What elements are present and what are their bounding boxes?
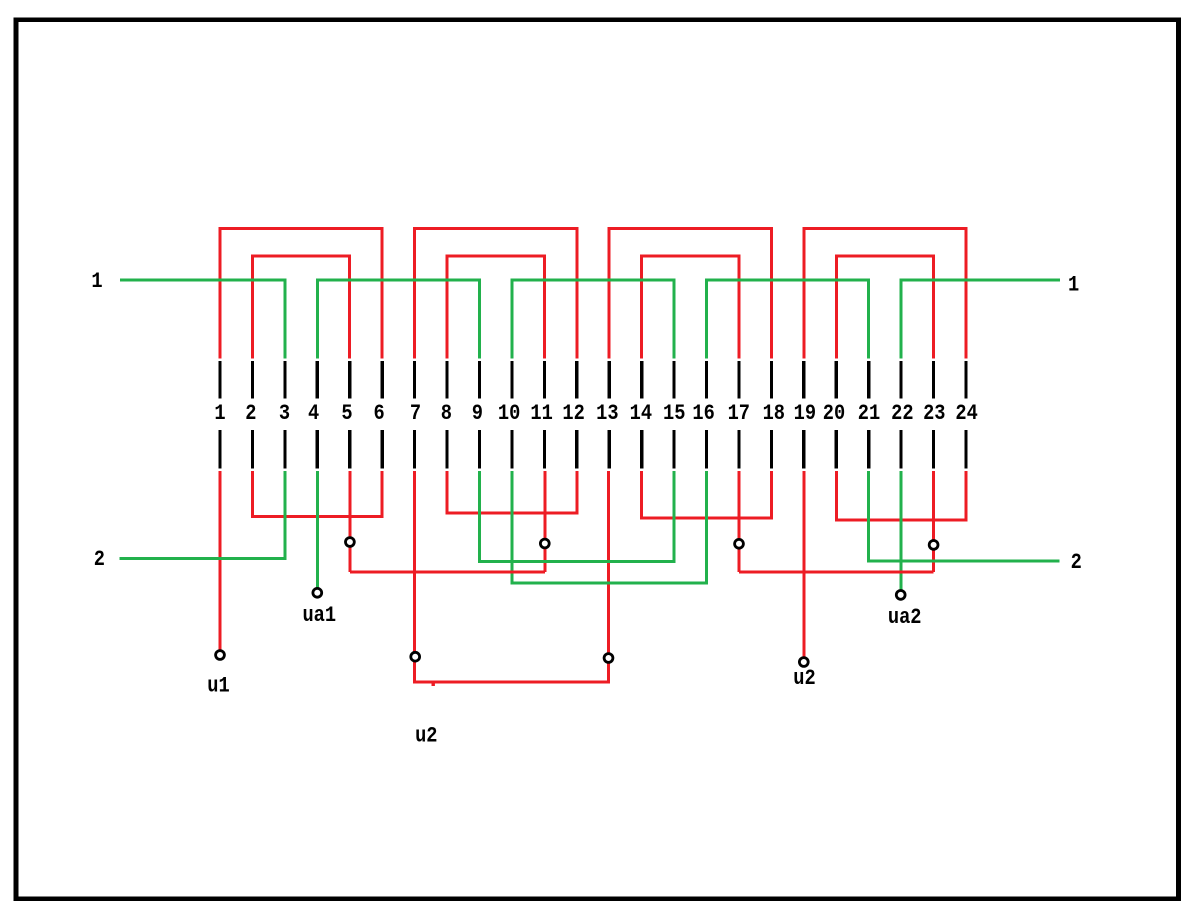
wire: red bottom end-turn slot 20 to slot 24	[836, 471, 966, 520]
wire: green phase line 1 slot 10 to slot 15	[512, 280, 674, 359]
svg-text:21: 21	[858, 402, 880, 427]
wire: red lead slot 17 down through node to jumper level	[738, 471, 741, 572]
slot 10 upper bar	[510, 361, 513, 398]
svg-text:ua1: ua1	[302, 604, 336, 629]
slot 19 lower bar	[802, 430, 805, 469]
svg-text:5: 5	[341, 402, 352, 427]
node: tap circle on slot 11 lead	[540, 539, 549, 548]
slot 19 upper bar	[802, 361, 805, 398]
svg-text:2: 2	[245, 402, 256, 427]
slot 21 upper bar	[867, 361, 870, 398]
slot 5 lower bar	[348, 430, 351, 469]
wire: green from slot 21 to right terminal 2	[869, 471, 1060, 561]
slot 23 lower bar	[932, 430, 935, 469]
wire: red lead slot 5 down through node to jumper level	[348, 471, 351, 572]
svg-text:17: 17	[728, 402, 750, 427]
slot 13 upper bar	[608, 361, 611, 398]
svg-text:1: 1	[91, 270, 102, 295]
slot 11 upper bar	[543, 361, 546, 398]
slot 17 upper bar	[737, 361, 740, 398]
slot 2 lower bar	[251, 430, 254, 469]
wire: red lead slot 1 down to terminal u1	[219, 471, 222, 655]
node: tap circle on slot 5 lead	[346, 538, 355, 547]
wire: red jumper node slot 17 to node slot 23	[739, 571, 934, 574]
wire: red jumper node slot 5 to node slot 11	[350, 571, 545, 574]
svg-text:u2: u2	[415, 724, 437, 749]
svg-text:10: 10	[498, 402, 520, 427]
slot 6 upper bar	[381, 361, 384, 398]
svg-text:u2: u2	[793, 667, 815, 692]
slot 2 upper bar	[251, 361, 254, 398]
wire: green bottom jumper slot 10 to slot 16	[512, 471, 707, 583]
wire: green phase line 1 from left terminal 1 into slot 3	[120, 280, 285, 359]
svg-text:ua2: ua2	[888, 606, 922, 631]
wire: red lead slot 19 down to terminal u2	[802, 471, 805, 662]
slot 4 lower bar	[316, 430, 319, 469]
svg-text:4: 4	[308, 402, 319, 427]
wire: green lead slot 22 down to terminal ua2	[900, 471, 903, 595]
wire: red outer top end-turn slot 1 to slot 6	[220, 229, 382, 359]
wire: green phase line 1 slot 22 to right terminal 1	[901, 280, 1060, 359]
terminal u1 circle	[216, 651, 225, 660]
wire: red lead slot 11 down through node to jumper level	[543, 471, 546, 572]
wire: green bottom jumper slot 9 to slot 15	[480, 471, 675, 561]
slot 3 upper bar	[283, 361, 286, 398]
svg-text:8: 8	[441, 402, 452, 427]
wire: red inner top end-turn slot 2 to slot 5	[252, 256, 349, 359]
slot 7 upper bar	[413, 361, 416, 398]
slot 17 lower bar	[737, 430, 740, 469]
svg-text:7: 7	[410, 402, 421, 427]
wire: green phase line 1 slot 4 to slot 9	[317, 280, 479, 359]
wire: red bottom end-turn slot 2 to slot 6	[252, 471, 382, 516]
svg-text:18: 18	[763, 402, 785, 427]
slot 3 lower bar	[283, 430, 286, 469]
wire: red bottom end-turn slot 14 to slot 18	[642, 471, 772, 518]
slot 11 lower bar	[543, 430, 546, 469]
slot 8 upper bar	[445, 361, 448, 398]
svg-text:24: 24	[955, 402, 977, 427]
svg-text:20: 20	[823, 402, 845, 427]
slot 18 lower bar	[770, 430, 773, 469]
slot 5 upper bar	[348, 361, 351, 398]
slot 12 upper bar	[575, 361, 578, 398]
svg-text:2: 2	[1071, 551, 1082, 576]
svg-text:11: 11	[530, 402, 552, 427]
node: tap circle on slot 23 lead	[929, 541, 938, 550]
wire: red lead slot 23 down through node to jumper level	[932, 471, 935, 572]
slot 15 upper bar	[672, 361, 675, 398]
slot 10 lower bar	[510, 430, 513, 469]
wire: red bottom jumper slot 7 to slot 13 (u2 loop)	[415, 471, 609, 682]
wire: small red stub below u2 jumper	[432, 683, 435, 686]
wire: red inner top end-turn slot 14 to slot 17	[642, 256, 739, 359]
wire: red outer top end-turn slot 19 to slot 24	[804, 229, 966, 359]
slot 20 upper bar	[835, 361, 838, 398]
node: tap circle on slot 13 lead	[604, 654, 613, 663]
svg-text:14: 14	[630, 402, 652, 427]
svg-text:1: 1	[214, 402, 225, 427]
slot 15 lower bar	[672, 430, 675, 469]
svg-text:1: 1	[1068, 273, 1079, 298]
wire: red bottom end-turn slot 8 to slot 12	[447, 471, 577, 513]
svg-text:6: 6	[373, 402, 384, 427]
slot 24 upper bar	[964, 361, 967, 398]
slot 23 upper bar	[932, 361, 935, 398]
slot 24 lower bar	[964, 430, 967, 469]
svg-text:9: 9	[472, 402, 483, 427]
wire: green from left terminal 2 up into slot 3	[120, 471, 285, 559]
slot 6 lower bar	[381, 430, 384, 469]
wire: red outer top end-turn slot 13 to slot 18	[609, 229, 771, 359]
slot 8 lower bar	[445, 430, 448, 469]
svg-text:13: 13	[596, 402, 618, 427]
terminal ua1 circle	[313, 588, 322, 597]
wire: green phase line 1 slot 16 to slot 21	[707, 280, 869, 359]
slot 14 lower bar	[640, 430, 643, 469]
slot 21 lower bar	[867, 430, 870, 469]
slot 22 lower bar	[899, 430, 902, 469]
svg-text:3: 3	[279, 402, 290, 427]
terminal u2 circle	[799, 658, 808, 667]
slot 1 lower bar	[218, 430, 221, 469]
slot 16 upper bar	[705, 361, 708, 398]
slot 13 lower bar	[608, 430, 611, 469]
slot 9 upper bar	[478, 361, 481, 398]
slot 9 lower bar	[478, 430, 481, 469]
slot 4 upper bar	[316, 361, 319, 398]
svg-text:u1: u1	[207, 674, 229, 699]
svg-text:2: 2	[94, 548, 105, 573]
slot 1 upper bar	[218, 361, 221, 398]
svg-text:16: 16	[692, 402, 714, 427]
svg-text:19: 19	[794, 402, 816, 427]
node: tap circle on slot 17 lead	[735, 539, 744, 548]
slot 14 upper bar	[640, 361, 643, 398]
terminal ua2 circle	[896, 591, 905, 600]
wire: green lead slot 4 down to terminal ua1	[316, 471, 319, 592]
slot 16 lower bar	[705, 430, 708, 469]
slot 22 upper bar	[899, 361, 902, 398]
slot 7 lower bar	[413, 430, 416, 469]
wire: red inner top end-turn slot 20 to slot 23	[836, 256, 933, 359]
slot 18 upper bar	[770, 361, 773, 398]
svg-text:12: 12	[562, 402, 584, 427]
wire: red inner top end-turn slot 8 to slot 11	[447, 256, 544, 359]
node: tap circle on slot 7 lead	[411, 652, 420, 661]
slot 12 lower bar	[575, 430, 578, 469]
svg-text:15: 15	[663, 402, 685, 427]
svg-text:23: 23	[923, 402, 945, 427]
slot 20 lower bar	[835, 430, 838, 469]
svg-text:22: 22	[891, 402, 913, 427]
wire: red outer top end-turn slot 7 to slot 12	[415, 229, 577, 359]
